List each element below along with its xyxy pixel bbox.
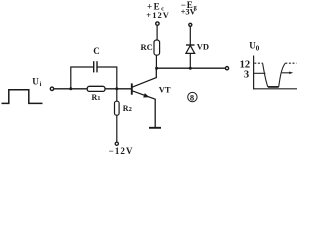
solid 3 level left <box>254 72 266 74</box>
transistor VT collector lead <box>132 68 157 87</box>
transistor VT base bar <box>131 83 133 94</box>
svg-text:VT: VT <box>159 85 171 95</box>
wire input to R1 <box>54 88 87 90</box>
wire RC to collector node <box>155 55 157 68</box>
waveform down slope <box>263 63 268 87</box>
node B junction <box>115 87 118 90</box>
resistor R2 <box>115 101 120 115</box>
capacitor C <box>93 61 95 72</box>
solid 3 level right with arrow <box>282 72 291 74</box>
input terminal <box>50 87 53 90</box>
terminal +12V <box>156 22 159 25</box>
terminal +3V <box>189 23 192 26</box>
node diode junction <box>189 67 192 70</box>
graph y axis <box>253 56 255 90</box>
wire capacitor branch left <box>71 67 94 89</box>
svg-text:−12V: −12V <box>109 146 134 156</box>
svg-text:RC: RC <box>141 42 153 52</box>
dashed 12 level left <box>254 62 262 64</box>
wire +3V to diode <box>189 26 191 45</box>
wire node B to R2 <box>116 89 118 101</box>
output terminal <box>225 67 228 70</box>
wire R2 to -12V terminal <box>116 115 118 142</box>
svg-text:R2: R2 <box>123 104 132 113</box>
resistor R1 <box>87 86 105 91</box>
collector output wire <box>156 67 226 69</box>
emitter arrow <box>143 93 149 97</box>
svg-text:R1: R1 <box>92 93 101 102</box>
dashed 12 level right <box>285 62 296 64</box>
svg-text:+12V: +12V <box>146 10 170 20</box>
waveform bottom <box>268 86 279 88</box>
svg-text:C: C <box>93 46 100 56</box>
waveform up slope <box>279 63 286 87</box>
svg-text:8: 8 <box>190 92 194 102</box>
figure number 8 circle <box>188 92 197 101</box>
transistor VT emitter lead <box>132 91 155 128</box>
wire +12V to RC <box>156 25 158 40</box>
wire capacitor branch right <box>97 67 117 89</box>
node collector junction <box>155 67 158 70</box>
svg-text:VD: VD <box>197 41 209 51</box>
diode VD triangle <box>186 45 195 53</box>
terminal -12V <box>115 142 118 145</box>
wire R1 to base <box>105 88 131 90</box>
ground <box>149 127 161 129</box>
svg-text:3: 3 <box>244 69 249 80</box>
diode VD cathode bar <box>186 44 195 46</box>
input pulse waveform <box>2 90 43 104</box>
svg-text:+3V: +3V <box>181 7 197 17</box>
graph x axis <box>253 88 297 90</box>
resistor RC <box>154 40 160 55</box>
node A junction <box>69 87 72 90</box>
wire diode to output line <box>189 53 191 68</box>
